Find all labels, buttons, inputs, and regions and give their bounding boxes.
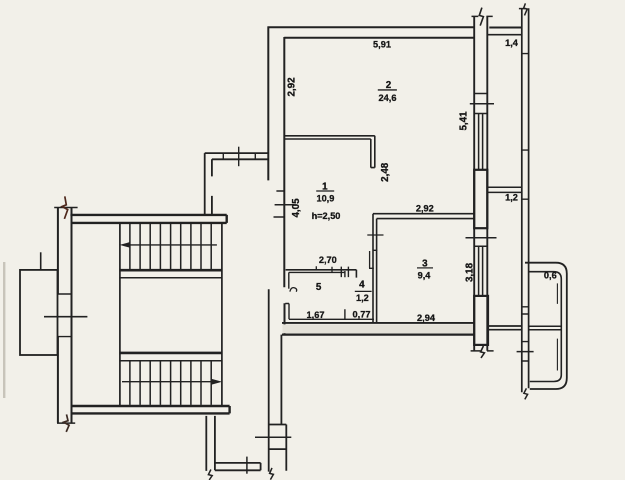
svg-text:3,18: 3,18 xyxy=(464,262,475,282)
axis tick crossing left wall xyxy=(44,316,87,318)
pier block upper (right wall) xyxy=(474,170,487,228)
svg-text:2,70: 2,70 xyxy=(319,255,337,265)
wall: left exterior outer line xyxy=(267,27,269,181)
wall: left exterior inner line (upper, with door gap) xyxy=(283,37,285,334)
wall: room 3 left xyxy=(373,214,377,323)
left edge scan smudge xyxy=(3,262,5,398)
svg-text:h=2,50: h=2,50 xyxy=(312,211,341,221)
arrow up-flight (points left) xyxy=(127,244,217,246)
svg-text:10,9: 10,9 xyxy=(316,194,334,204)
svg-text:0,6: 0,6 xyxy=(544,271,557,281)
svg-text:0,77: 0,77 xyxy=(353,310,371,320)
room 5 left wall upper xyxy=(288,272,290,288)
stairwell left wall outer line xyxy=(57,207,59,423)
room 5 left wall lower + cap xyxy=(285,304,289,320)
room 5 inner top wall xyxy=(289,271,345,273)
caps and ticks on right wall xyxy=(466,94,497,345)
break zigzag stairwell bottom-left xyxy=(64,414,69,432)
wall: top-right stub inner line xyxy=(487,34,522,36)
stairs side lines xyxy=(120,224,222,405)
svg-text:5: 5 xyxy=(316,282,322,293)
elevator door mark xyxy=(40,252,42,270)
room 5 outer top wall xyxy=(286,270,357,278)
window glazing lines upper window xyxy=(479,114,483,170)
door jamb ticks room5/4 xyxy=(341,267,348,278)
svg-text:4,05: 4,05 xyxy=(291,198,302,218)
wall: room 3 top xyxy=(373,214,474,219)
break zigzag stairwell top-left (brown) xyxy=(62,196,68,219)
balcony (rounded) outer outline xyxy=(525,263,567,389)
right wall top break zigzag xyxy=(479,8,483,26)
caps in left wall xyxy=(58,294,72,337)
svg-text:1,4: 1,4 xyxy=(505,38,519,48)
left wall bottom tick xyxy=(57,422,75,424)
svg-text:2,92: 2,92 xyxy=(416,203,434,213)
stairwell left wall inner line xyxy=(71,208,73,423)
rooms 5/4 bottom thin wall xyxy=(289,318,374,320)
wall: between room 1 and room 2 xyxy=(284,136,375,168)
tambour wall dividers xyxy=(223,153,255,159)
upper flight edge lines xyxy=(120,269,222,272)
tambour top wall xyxy=(205,153,269,159)
balcony left wall caps xyxy=(522,54,529,361)
svg-text:5,41: 5,41 xyxy=(458,111,469,131)
wall: bottom exterior inner line xyxy=(282,322,474,324)
svg-text:24,6: 24,6 xyxy=(379,93,397,103)
stairs upper flight risers xyxy=(130,224,211,270)
stub walls to balcony: lower xyxy=(488,326,522,330)
bottom horizontal double wall xyxy=(215,463,261,470)
svg-text:1,2: 1,2 xyxy=(505,193,518,203)
tambour left wall xyxy=(205,153,212,215)
lower flight edge lines xyxy=(120,352,222,355)
pier block lower (right wall) xyxy=(474,296,488,345)
stairwell top wall xyxy=(70,215,226,223)
wall: bottom exterior outer line xyxy=(282,334,475,336)
balcony glazing detail xyxy=(556,283,558,370)
door swing squiggle xyxy=(290,288,297,292)
elevator shaft xyxy=(20,270,58,355)
wall: bottom exterior poche fill xyxy=(283,324,474,333)
bottom-left wall below stairwell xyxy=(206,416,215,471)
svg-text:2,92: 2,92 xyxy=(286,77,297,97)
svg-text:5,91: 5,91 xyxy=(373,39,391,49)
wall: top exterior inner line xyxy=(284,37,474,39)
stub walls to balcony: middle xyxy=(487,187,521,192)
svg-text:4: 4 xyxy=(359,280,365,291)
break zigzag on that wall xyxy=(208,470,212,480)
right wall top break ticks xyxy=(472,15,493,17)
tick on lower-left exterior wall xyxy=(255,436,291,438)
tambour wall dimension tick xyxy=(238,147,240,167)
window glazing lines lower window xyxy=(479,246,483,295)
stairs lower flight risers xyxy=(130,361,211,405)
right wall bottom break ticks xyxy=(471,350,494,352)
balcony divider wall xyxy=(529,326,562,329)
dimension ticks near apartment entry (4,05) xyxy=(274,191,295,217)
balcony inner outline xyxy=(529,272,562,382)
right wall bottom break zigzag xyxy=(481,346,485,358)
svg-text:1,2: 1,2 xyxy=(356,293,369,303)
balcony left wall (loggia rail) xyxy=(522,8,529,392)
door ticks on room 3 left wall xyxy=(367,235,383,268)
balcony wall wide tick xyxy=(517,351,534,353)
svg-text:2,94: 2,94 xyxy=(417,313,436,323)
break zigzag bottom of exterior wall xyxy=(270,468,274,480)
balcony wall top tick and break xyxy=(519,8,526,10)
svg-text:2,48: 2,48 xyxy=(380,162,391,182)
left wall top tick xyxy=(54,207,77,209)
svg-text:9,4: 9,4 xyxy=(418,271,432,281)
arrow down-flight (points right) xyxy=(122,381,215,383)
stairwell bottom wall xyxy=(72,406,230,413)
wall: top exterior outer line xyxy=(268,26,523,28)
balcony wall bottom break xyxy=(524,388,528,399)
lower-left exterior wall below apartment xyxy=(269,289,287,471)
partition between rooms 5 and 4 xyxy=(344,271,346,320)
wall: right exterior (window wall) vertical lines xyxy=(474,16,487,350)
tick crossing bottom wall xyxy=(246,457,248,474)
svg-text:1,67: 1,67 xyxy=(307,310,325,320)
small dim ticks on room5 top xyxy=(316,266,332,272)
